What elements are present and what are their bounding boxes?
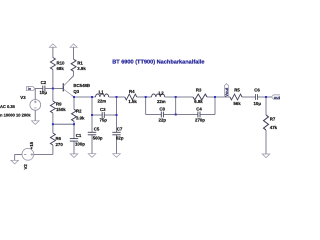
resistor R9 body [50,101,55,113]
voltage source V3 [30,100,41,111]
svg-text:100p: 100p [75,142,85,147]
svg-text:150k: 150k [56,107,66,112]
wire R1 bottom lead [73,71,75,75]
svg-text:C4: C4 [196,106,202,111]
junction bias rail left [52,123,54,125]
capacitor C6 body [256,94,258,100]
wire emitter node to L1 [74,96,96,98]
svg-text:+15: +15 [29,141,34,149]
wire R2 bottom lead [73,121,75,124]
resistor R3 body [193,94,207,100]
wire V3 top lead [34,89,36,100]
junction node B [175,96,177,98]
node out flag [272,95,282,100]
wire lower B to C4 [176,114,198,116]
svg-text:BT 6900 (TT900) Nachbarkanalfa: BT 6900 (TT900) Nachbarkanalfalle [112,59,204,66]
svg-text:BC548B: BC548B [73,83,90,88]
junction X1 bottom [91,114,93,116]
svg-text:22m: 22m [97,98,106,103]
wire lower X1 to C3 [92,114,102,116]
ground under C1 [70,154,78,158]
capacitor C7 body [112,132,120,135]
voltage source V2 [22,148,34,160]
wire node A vertical [145,97,147,115]
wire C7 top lead [116,115,118,132]
svg-text:R7: R7 [270,117,276,122]
svg-text:V2: V2 [23,164,28,170]
resistor R6 body [50,133,55,145]
wire R4 to node A [137,96,152,98]
svg-text:1.5k: 1.5k [128,99,137,104]
wire C7 bottom lead [116,135,118,154]
junction bias rail right [73,123,75,125]
power flag above R1 [70,44,77,47]
wire L2 right to node B [165,96,193,98]
resistor R10 body [50,58,55,70]
svg-text:270p: 270p [195,117,205,122]
junction node C [214,96,216,98]
ground under V2 [11,160,19,164]
wire V2 to R6 [34,153,53,155]
svg-text:L2: L2 [159,90,165,95]
ground under C7 [113,154,121,158]
svg-text:6.8k: 6.8k [194,99,203,104]
svg-text:68k: 68k [57,66,65,71]
wire C6 to out [257,96,271,98]
svg-text:Vout: Vout [224,87,229,96]
wire lower A to C8 [146,114,162,116]
svg-text:R6: R6 [56,136,62,141]
node In flag [26,87,35,92]
wire X1 vertical down [91,97,93,115]
wire R10 bottom lead [52,70,54,89]
svg-text:L1: L1 [99,90,105,95]
wire R2 top lead [73,97,75,109]
svg-text:10µ: 10µ [254,101,262,106]
node Vout flag [224,84,229,97]
resistor R1 body [71,59,76,71]
wire C5 bottom lead [91,135,93,154]
wire bottom bias rail [53,123,74,125]
junction out node [265,96,267,98]
svg-text:82p: 82p [116,135,124,140]
wire V2 left to ground [15,153,22,155]
junction X2 top [116,96,118,98]
junction emitter node [73,96,75,98]
capacitor C5 body [88,132,96,135]
wire R9 top lead [52,89,54,102]
capacitor C1 body [70,139,78,142]
ground under R7 [262,154,270,158]
wire V2 ground stub [14,154,16,160]
ground under V3 [32,121,40,125]
junction base node [52,88,54,90]
wire R7 bottom lead [265,130,267,154]
junction node A [145,96,147,98]
ground under C5 [88,154,96,158]
wire node B vertical [175,97,177,115]
resistor R4 body [125,94,137,100]
junction X2 bottom [116,114,118,116]
svg-text:R9: R9 [56,102,62,107]
wire base rail from In/V3 to C2 [35,88,43,90]
svg-text:47k: 47k [270,125,278,130]
inductor L1 body [96,94,109,97]
svg-text:R10: R10 [57,60,66,65]
wire C8 to lower B [164,114,176,116]
wire C3 to lower X2 [105,114,117,116]
junction node B bottom [175,114,177,116]
svg-text:AC 0.35: AC 0.35 [0,104,16,109]
svg-text:V3: V3 [20,95,26,100]
svg-text:Q3: Q3 [73,89,79,94]
svg-text:R3: R3 [196,88,202,93]
svg-text:3.9k: 3.9k [76,116,85,121]
wire C4 to lower C [200,114,215,116]
svg-text:270: 270 [56,142,64,147]
svg-text:75p: 75p [99,117,107,122]
wire node C vertical [214,97,216,115]
svg-text:R2: R2 [76,109,82,114]
wire R6 top lead [52,124,54,133]
capacitor C4 body [198,112,200,118]
svg-text:22m: 22m [157,99,166,104]
wire R10 top lead from power [52,47,54,58]
svg-text:C8: C8 [159,106,165,111]
capacitor C2 body [43,86,45,92]
wire L1 right to X2 [109,96,117,98]
svg-text:R1: R1 [77,60,83,65]
capacitor C3 body [102,112,104,118]
svg-text:n 10000 10 200k: n 10000 10 200k [0,112,31,117]
power flag above R10 [49,44,56,47]
wire X2 to R4 [117,96,125,98]
wire R9 bottom lead [52,113,54,124]
resistor R5 body [230,94,242,100]
wire C1 top lead [73,124,75,138]
wire diagonal R1 to collector [69,76,74,81]
capacitor C8 body [161,112,163,118]
svg-text:22p: 22p [159,117,167,122]
wire R7 top lead [265,97,267,115]
junction X1 top [91,96,93,98]
svg-text:out: out [274,95,280,100]
resistor R7 body [264,115,269,130]
wire X2 vertical down [116,97,118,115]
wire R3 to node C [207,96,230,98]
svg-text:3.9k: 3.9k [77,66,86,71]
wire C2 to Q3 base [45,88,63,90]
transistor Q1 BC548B symbol [63,81,74,97]
svg-text:560p: 560p [93,136,103,141]
wire R6 bottom lead [52,145,54,154]
svg-text:10µ: 10µ [40,90,48,95]
wire V3 bottom lead [34,110,36,121]
svg-text:C6: C6 [254,87,260,92]
svg-text:C5: C5 [94,126,100,131]
wire C5 top lead [91,115,93,132]
resistor R2 body [72,109,77,121]
wire R1 top lead from power [73,47,75,60]
inductor L2 body [152,94,165,97]
svg-text:C7: C7 [117,126,123,131]
wire R5 to C6 [242,96,256,98]
svg-text:R5: R5 [234,87,240,92]
svg-text:C2: C2 [41,80,47,85]
svg-text:56k: 56k [233,101,241,106]
svg-text:C1: C1 [76,133,82,138]
svg-text:C3: C3 [100,107,106,112]
svg-text:R4: R4 [129,89,135,94]
wire C1 bottom lead [73,141,75,154]
